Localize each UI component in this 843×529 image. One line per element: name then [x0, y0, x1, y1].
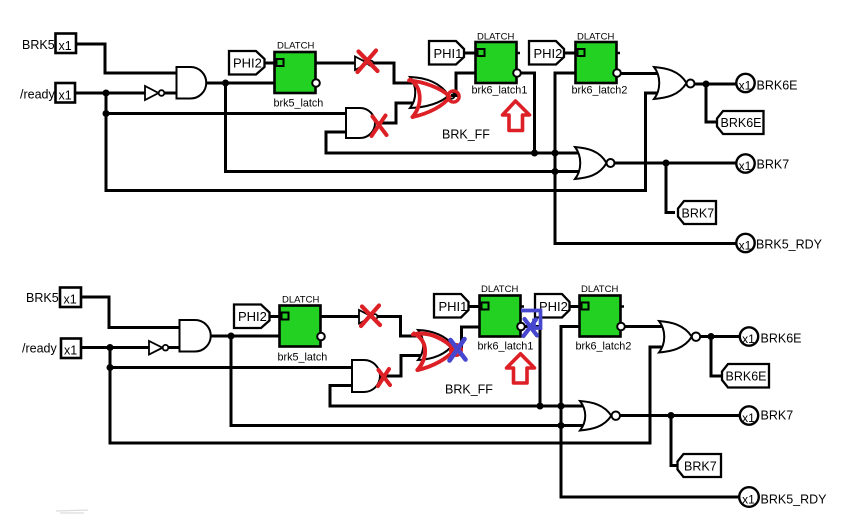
and-gate U4 (top middle AND, crossed out) — [346, 108, 375, 138]
svg-text:x1: x1 — [742, 411, 755, 425]
svg-text:DLATCH: DLATCH — [277, 41, 314, 52]
svg-text:BRK5_RDY: BRK5_RDY — [756, 238, 823, 252]
annotation red OR-gate circled over U5b (bottom) — [413, 334, 461, 371]
svg-text:x1: x1 — [64, 344, 77, 358]
wire AND U2b out to brk5_latch D (bottom) — [211, 335, 280, 338]
svg-text:DLATCH: DLATCH — [581, 284, 618, 295]
nor-gate U7b (bottom right) — [659, 321, 700, 353]
svg-text:PHI2: PHI2 — [238, 309, 267, 324]
junction (561,425.5) bottom — [558, 422, 565, 429]
svg-text:x1: x1 — [59, 39, 72, 53]
annotation red X over inverter U3 (top) — [358, 51, 378, 73]
connector x1 BRK5_RDY (bottom) — [739, 487, 759, 507]
wire to tag BRK6E (top) — [706, 84, 716, 122]
svg-text:PHI1: PHI1 — [439, 299, 468, 314]
connector X1 (BRK5 top) — [56, 34, 77, 54]
connector X1 (/ready bottom) — [61, 339, 81, 359]
junction (110,367.5) bottom — [107, 364, 114, 371]
wire PHI2 to brk5_latch clk (top) — [265, 62, 277, 65]
junction (106,93) top — [103, 90, 110, 97]
svg-text:PHI2: PHI2 — [539, 299, 568, 314]
nor-gate U7 (top right) — [654, 67, 695, 99]
wire feedback bus y=171.5 (top) — [226, 83, 584, 172]
annotation blue X over brk6_latch1 output (bottom) — [524, 319, 538, 336]
wire U6b out to x1 BRK7 (bottom) — [620, 414, 740, 417]
wire brk6_latch2 D net down to BRK5_RDY (top) — [555, 73, 737, 244]
wire bus y=367.5 to AND U4b (bottom) — [110, 366, 353, 369]
wire inverter out to AND U2 (top) — [165, 92, 178, 95]
inverter U3b (bottom, crossed out) — [359, 310, 377, 324]
wire U7 out to x1 BRK6E (top) — [695, 83, 737, 86]
nor-gate U5b (bottom, red-circled) — [418, 330, 453, 360]
tag PHI1 (bottom) — [434, 294, 469, 318]
svg-text:BRK7: BRK7 — [684, 460, 717, 474]
annotation red arrow (bottom) — [507, 354, 535, 383]
svg-text:BRK6E: BRK6E — [721, 116, 762, 130]
dlatch brk5_latch (top) — [275, 52, 320, 93]
wire PHI2 to brk5_latch clk (bottom) — [270, 315, 282, 318]
svg-text:DLATCH: DLATCH — [481, 284, 518, 295]
svg-text:brk6_latch2: brk6_latch2 — [576, 341, 632, 353]
wire U3 out to NOR U5 input1 (top) — [374, 63, 416, 83]
tag PHI2 (bottom middle) — [535, 294, 570, 318]
annotation blue bracket at brk6_latch1 output (bottom) — [521, 311, 541, 329]
wire PHI2 to brk6_latch2 clk (bottom) — [570, 305, 582, 308]
connector x1 BRK5_RDY (top) — [736, 234, 754, 253]
junction (561,406) bottom — [558, 403, 565, 410]
and-gate U4b (bottom middle AND, crossed out) — [352, 360, 380, 392]
svg-text:BRK_FF: BRK_FF — [445, 383, 493, 397]
wire /ready long bus to NOR U7 (top) — [106, 93, 665, 191]
annotation blue X over U5b output (bottom) — [450, 339, 466, 361]
wire to tag BRK6E (bottom) — [711, 337, 721, 377]
wire AND U4 out to NOR U5 input2 (top) — [375, 103, 415, 123]
connector x1 BRK7 (top) — [736, 154, 754, 173]
wire BRK5 to AND U2b (bottom) — [81, 297, 181, 328]
nor-gate U6b (bottom lower right) — [580, 401, 620, 431]
svg-text:BRK6E: BRK6E — [761, 332, 802, 346]
dlatch brk6_latch2 (top) — [576, 42, 621, 83]
svg-text:x1: x1 — [64, 293, 77, 307]
wire /ready to inverter (top) — [75, 92, 145, 95]
junction (231,336) bottom — [228, 333, 235, 340]
wire U3b out to NOR U5b input1 (bottom) — [378, 317, 424, 337]
svg-text:PHI2: PHI2 — [233, 56, 262, 71]
svg-text:x1: x1 — [59, 89, 72, 103]
svg-text:x1: x1 — [739, 238, 752, 252]
connector x1 BRK6E (top) — [736, 74, 754, 93]
tag PHI2 (bottom left) — [234, 305, 270, 329]
svg-text:BRK7: BRK7 — [682, 207, 715, 221]
svg-text:brk5_latch: brk5_latch — [274, 98, 324, 110]
junction (106,113.5) top — [103, 110, 110, 117]
wire PHI1 to brk6_latch1 clk (bottom) — [469, 305, 482, 308]
annotation red OR-gate circled over U5 (top) — [409, 80, 459, 118]
tag BRK7 (bottom) — [678, 454, 722, 477]
tag PHI2 (top left) — [229, 51, 265, 75]
junction (706,84) top — [703, 81, 710, 88]
svg-text:x1: x1 — [739, 159, 752, 173]
svg-text:BRK_FF: BRK_FF — [442, 128, 490, 142]
junction (534.5,153) top — [531, 150, 538, 157]
annotation red X over AND U4b output (bottom) — [378, 369, 390, 386]
wire /ready long bus to NOR U7b (bottom) — [110, 347, 668, 443]
svg-text:PHI2: PHI2 — [534, 46, 563, 61]
wire brk5_latch Q to inverter U3b (bottom) — [321, 315, 360, 318]
junction (671,415.5) bottom — [668, 412, 675, 419]
connector X1 (BRK5 bottom) — [60, 288, 81, 308]
junction (540,406) bottom — [537, 403, 544, 410]
wire to tag BRK7 (top) — [666, 163, 675, 213]
wire inverter out to AND U2b (bottom) — [169, 346, 182, 349]
svg-text:/ready: /ready — [22, 342, 57, 356]
dlatch brk6_latch2 (bottom) — [580, 296, 625, 337]
svg-text:BRK7: BRK7 — [757, 158, 790, 172]
wire AND U4b out to NOR U5b input2 (bottom) — [380, 356, 423, 377]
svg-text:BRK6E: BRK6E — [757, 79, 798, 93]
connector x1 BRK6E (bottom) — [740, 327, 758, 346]
wire brk5_latch Q to inverter U3 (top) — [316, 62, 356, 65]
wire bus y=153 to NOR U6 and AND U4 input (top) — [326, 132, 583, 153]
svg-text:BRK7: BRK7 — [761, 409, 794, 423]
inverter U1b (bottom) — [149, 341, 168, 355]
junction (555,153) top — [552, 150, 559, 157]
dlatch brk6_latch1 (bottom) — [480, 296, 525, 337]
wire PHI1 to brk6_latch1 clk (top) — [464, 52, 477, 55]
junction (711,336.5) bottom — [708, 333, 715, 340]
wire U5 out to brk6_latch1 D (top) — [451, 73, 476, 96]
junction (666,163) top — [663, 160, 670, 167]
dlatch brk5_latch (bottom) — [280, 306, 325, 347]
svg-text:BRK6E: BRK6E — [726, 370, 767, 384]
svg-text:x1: x1 — [742, 332, 755, 346]
annotation red arrow (top) — [503, 101, 530, 131]
svg-text:BRK5: BRK5 — [26, 291, 59, 305]
wire U5b out to brk6_latch1 D (bottom) — [452, 327, 481, 348]
svg-text:BRK5: BRK5 — [22, 38, 55, 52]
wire brk6_latch2 D net down to BRK5_RDY (bottom) — [561, 327, 740, 498]
junction (225.5,83) top — [222, 80, 229, 87]
svg-text:x1: x1 — [739, 78, 752, 92]
wire to tag BRK7 (bottom) — [671, 416, 677, 466]
connector X1 (/ready top) — [56, 83, 76, 103]
junction (110,347.5) bottom — [107, 344, 114, 351]
and-gate U2b (bottom input AND) — [180, 320, 211, 352]
connector x1 BRK7 (bottom) — [740, 406, 758, 425]
svg-text:x1: x1 — [742, 492, 755, 506]
svg-text:/ready: /ready — [20, 88, 55, 102]
faint pencil smudge bottom left — [56, 510, 88, 513]
wire BRK5 to AND U2 input (top) — [76, 44, 178, 73]
wire bus y=406 to NOR U6b and AND U4b input (bottom) — [330, 386, 588, 407]
wire brk6_latch2 Qbar to NOR U7b (bottom) — [625, 325, 667, 328]
tag BRK6E (top) — [717, 111, 764, 134]
svg-text:brk6_latch1: brk6_latch1 — [478, 341, 534, 353]
wire AND U2 out to brk5_latch D (top) — [206, 82, 275, 85]
svg-text:brk6_latch2: brk6_latch2 — [572, 85, 628, 97]
wire PHI2 to brk6_latch2 clk (top) — [564, 52, 577, 55]
dlatch brk6_latch1 (top) — [476, 42, 521, 83]
tag PHI2 (top middle) — [529, 41, 564, 65]
wire U7b out to x1 BRK6E (bottom) — [700, 335, 740, 338]
tag BRK7 (top) — [678, 201, 716, 224]
tag PHI1 (top) — [429, 41, 464, 65]
svg-text:BRK5_RDY: BRK5_RDY — [761, 493, 828, 507]
wire brk6_latch2 Qbar to NOR U7 (top) — [621, 72, 663, 75]
wire brk6_latch1 Qbar down to bus (top) — [521, 73, 535, 153]
and-gate U2 (top input AND) — [177, 67, 207, 99]
nor-gate U6 (top lower right) — [575, 147, 615, 179]
svg-text:DLATCH: DLATCH — [282, 295, 319, 306]
inverter U1 (top) — [145, 86, 164, 100]
svg-text:brk5_latch: brk5_latch — [278, 352, 328, 364]
wire /ready to inverter (bottom) — [81, 346, 149, 349]
inverter U3 (top, crossed out) — [355, 57, 373, 71]
tag BRK6E (bottom) — [722, 364, 769, 388]
wire U6 out to x1 BRK7 (top) — [615, 162, 737, 165]
nor-gate U5 (top, red-circled) — [410, 77, 455, 108]
annotation red X over AND U4 output (top) — [372, 116, 387, 137]
annotation red X over inverter U3b (bottom) — [361, 306, 380, 327]
svg-text:PHI1: PHI1 — [434, 46, 463, 61]
wire bus y=113.5 to AND U4 (top) — [106, 112, 347, 115]
wire feedback bus y=425.5 (bottom) — [231, 336, 588, 426]
svg-text:brk6_latch1: brk6_latch1 — [472, 85, 528, 97]
junction (555,171.5) top — [552, 168, 559, 175]
wire brk6_latch1 Qbar down to bus (bottom) — [525, 327, 540, 407]
